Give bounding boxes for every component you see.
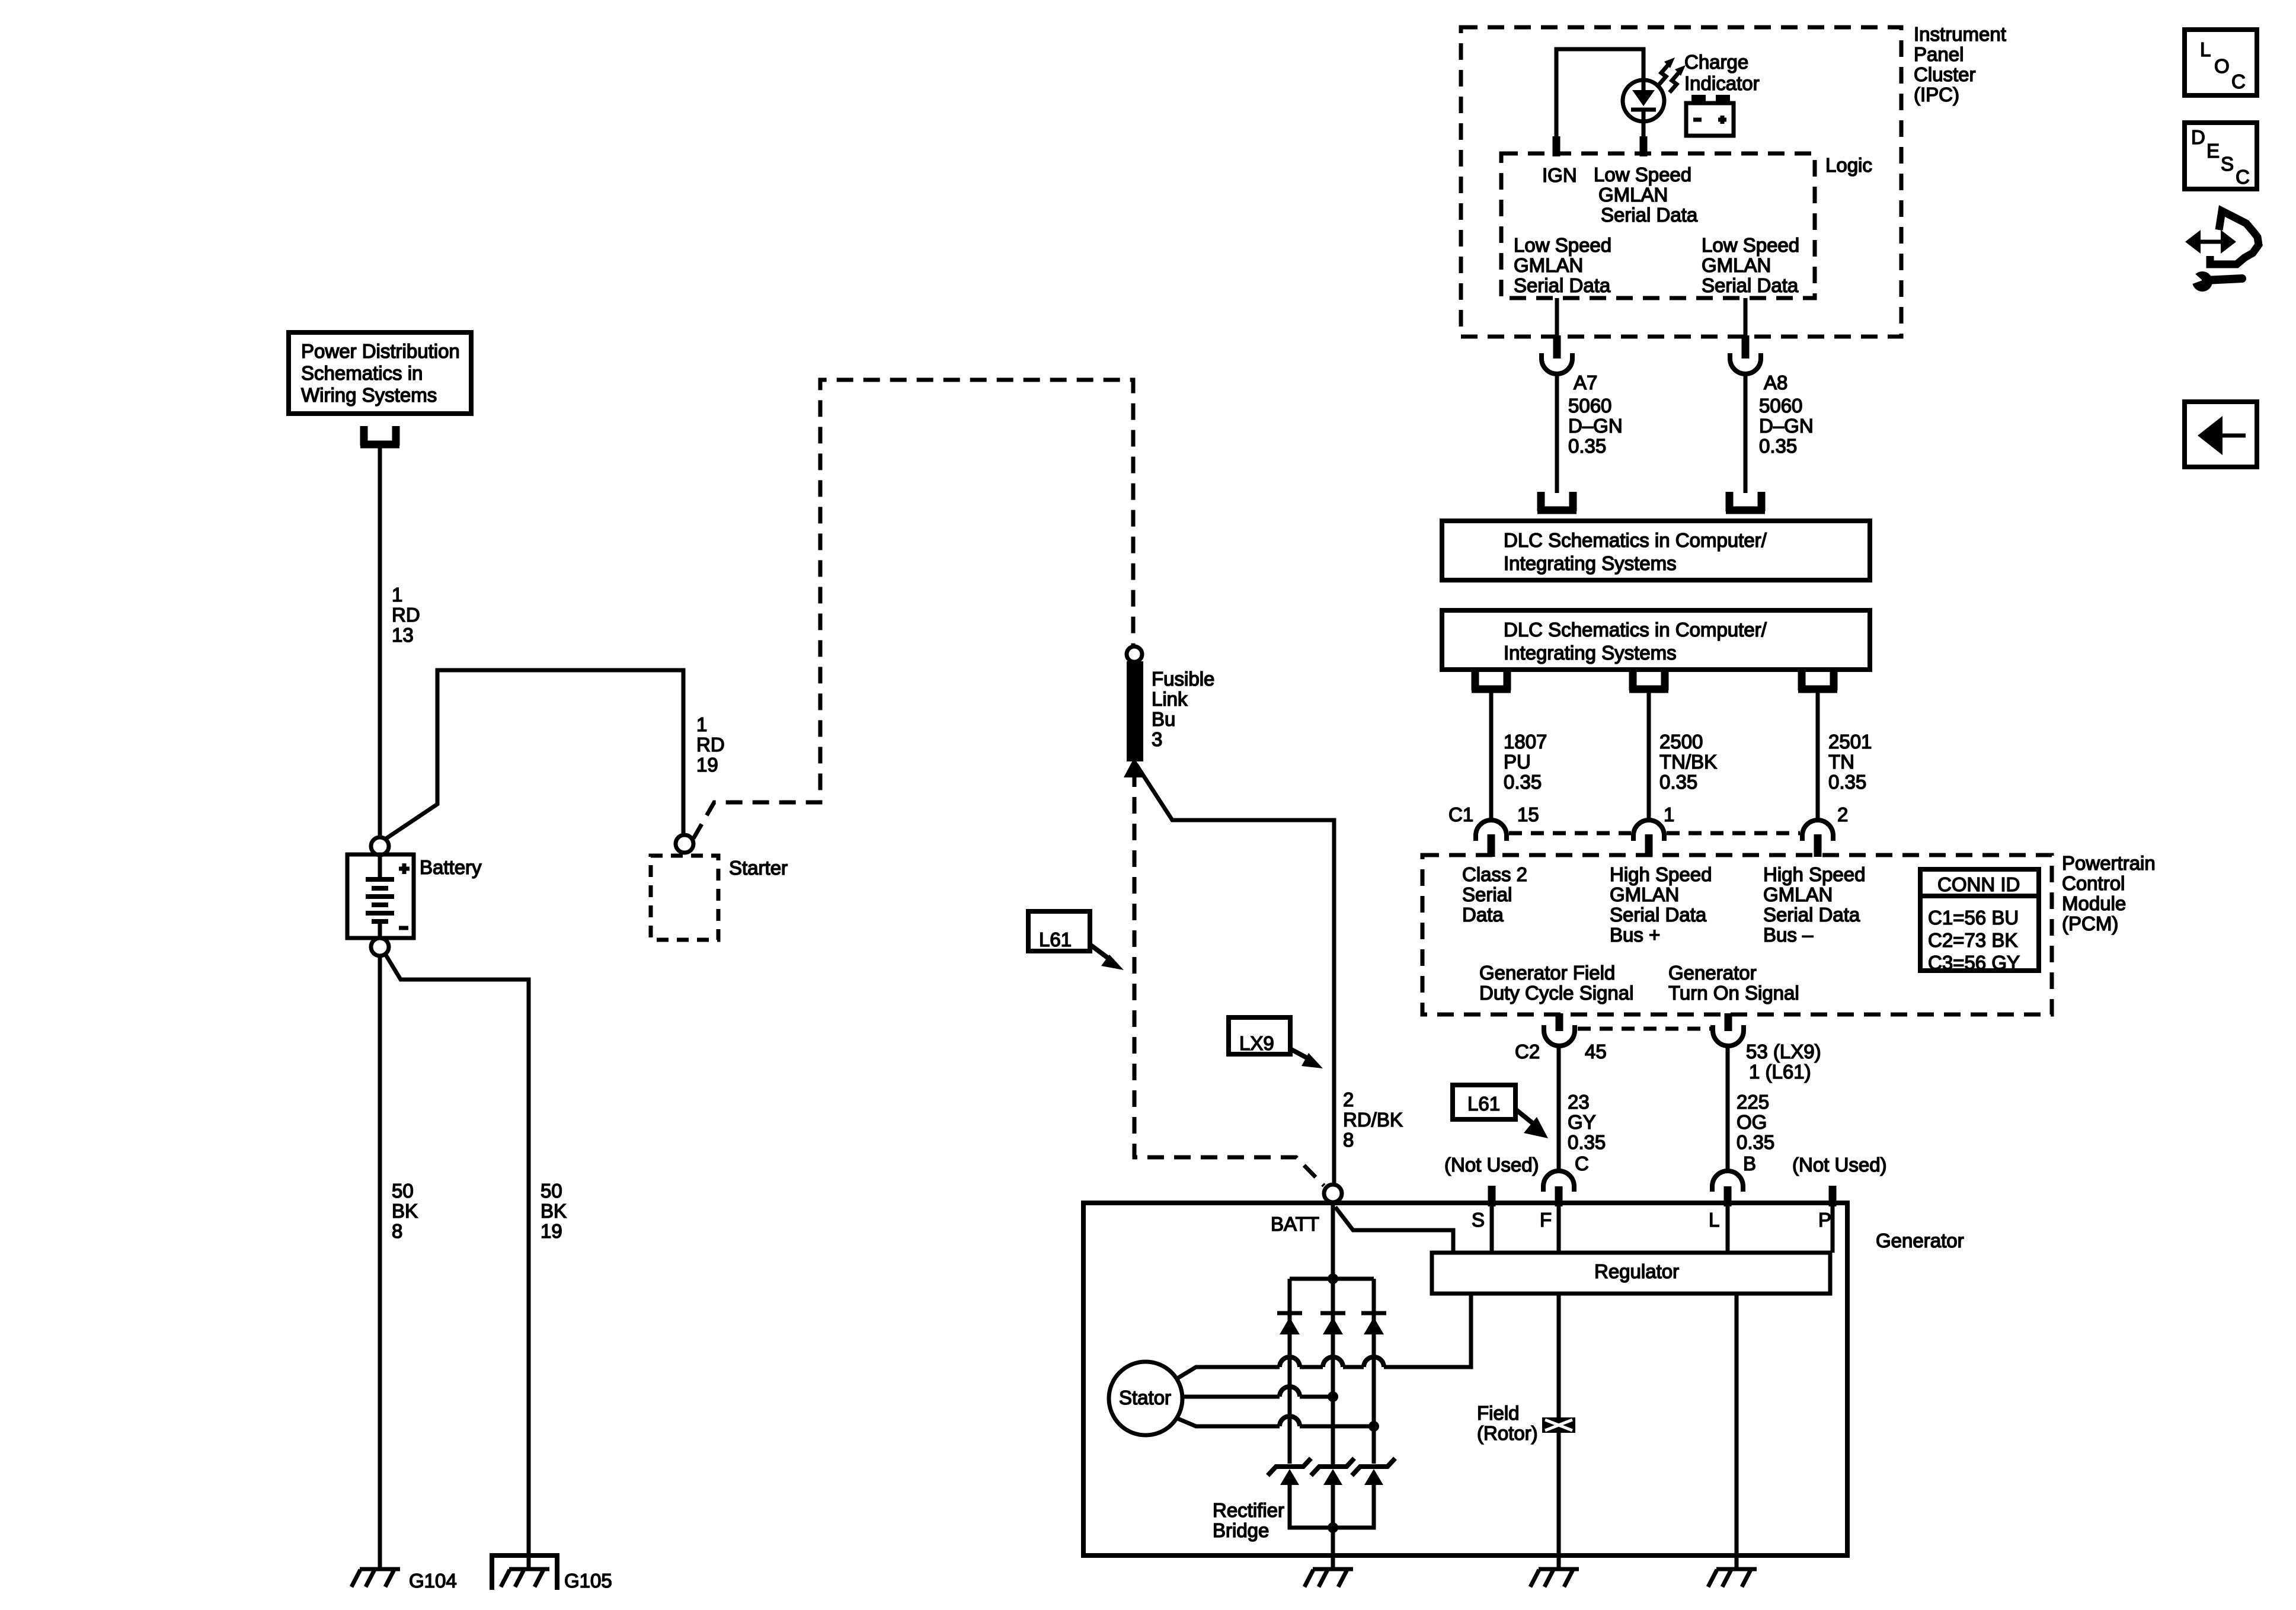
connector arc at generator terminal B <box>1712 1171 1743 1192</box>
svg-text:Starter: Starter <box>729 857 788 879</box>
bump: top phase over right leg <box>1364 1357 1384 1367</box>
label: Low Speed GMLAN Serial Data (top) <box>1594 164 1698 226</box>
svg-text:(Not Used): (Not Used) <box>1444 1154 1539 1176</box>
label: Powertrain Control Module (PCM) <box>2062 852 2156 934</box>
node: bottom phase junction <box>1368 1421 1379 1432</box>
svg-text:L61: L61 <box>1467 1093 1500 1115</box>
wire: regulator to ground <box>1735 1294 1739 1569</box>
svg-text:Link: Link <box>1152 688 1188 710</box>
svg-text:Bu: Bu <box>1152 708 1175 730</box>
pin 1 of PCM <box>1645 834 1653 857</box>
ground G104 <box>351 1569 400 1587</box>
pin 2 of PCM <box>1814 834 1822 857</box>
wire: stator middle phase <box>1182 1395 1333 1399</box>
svg-text:Serial: Serial <box>1462 884 1512 905</box>
arrow from L61 box <box>1090 945 1124 970</box>
connector bracket under lower DLC box (middle) <box>1629 671 1668 690</box>
icon: DESC box <box>2185 123 2257 189</box>
wire: stator top phase to regulator sense <box>1176 1294 1471 1379</box>
svg-text:PU: PU <box>1504 751 1531 773</box>
wire: battery positive to starter feed riser <box>385 670 683 839</box>
svg-text:Indicator: Indicator <box>1684 72 1760 94</box>
label: wire 2 RD/BK 8 <box>1343 1089 1403 1151</box>
svg-text:D–GN: D–GN <box>1568 415 1623 437</box>
wire: stator bottom phase <box>1176 1418 1374 1426</box>
logic dashed box inside IPC <box>1501 153 1815 298</box>
pin: generator terminal P (not used) <box>1829 1186 1837 1206</box>
bump: middle phase over left leg <box>1280 1387 1300 1397</box>
wire: bridge center leg <box>1331 1279 1335 1465</box>
svg-text:DLC Schematics in Computer/: DLC Schematics in Computer/ <box>1504 619 1767 641</box>
svg-text:Panel: Panel <box>1914 43 1964 65</box>
svg-text:Schematics in: Schematics in <box>301 362 423 384</box>
starter (dashed box) <box>651 856 718 940</box>
wire: regulator F output through field <box>1557 1294 1561 1569</box>
wire: terminal S to regulator <box>1490 1205 1494 1253</box>
svg-text:GMLAN: GMLAN <box>1514 254 1583 276</box>
svg-text:Serial Data: Serial Data <box>1610 904 1707 926</box>
connector arc at PCM pin 2 <box>1802 820 1833 841</box>
svg-text:IGN: IGN <box>1542 164 1577 186</box>
svg-text:C1=56 BU: C1=56 BU <box>1928 907 2019 929</box>
svg-text:2501: 2501 <box>1828 731 1872 753</box>
svg-text:O: O <box>2214 55 2230 77</box>
svg-text:Generator: Generator <box>1876 1230 1964 1251</box>
svg-text:TN: TN <box>1828 751 1854 773</box>
svg-text:Logic: Logic <box>1825 154 1872 176</box>
node: bridge top junction <box>1328 1273 1338 1284</box>
wire: bridge to ground <box>1331 1528 1335 1569</box>
svg-text:Control: Control <box>2062 872 2125 894</box>
bump: bottom phase over left leg <box>1280 1416 1300 1426</box>
stator circle <box>1109 1362 1182 1435</box>
label: Rectifier Bridge <box>1213 1499 1284 1541</box>
dashed connector line between PCM bottom pins <box>1578 1027 1710 1031</box>
wire: bridge right leg <box>1372 1279 1376 1464</box>
wire: battery negative to G105 <box>385 954 529 1569</box>
svg-text:Bridge: Bridge <box>1213 1519 1269 1541</box>
wire: 2 RD/BK 8 from fusible link to BATT junction <box>1136 764 1334 1185</box>
svg-text:225: 225 <box>1737 1091 1769 1113</box>
label: wire 225 OG 0.35 <box>1737 1091 1774 1153</box>
pin: generator terminal S (not used) <box>1488 1186 1496 1206</box>
svg-text:GMLAN: GMLAN <box>1702 254 1771 276</box>
dashed connector line between PCM top pins <box>1509 831 1800 836</box>
wire: terminal P to regulator <box>1831 1205 1835 1253</box>
label: wire 1 RD 19 <box>696 713 725 776</box>
svg-text:8: 8 <box>1343 1129 1354 1151</box>
svg-text:1: 1 <box>1664 804 1674 825</box>
svg-text:C: C <box>1575 1153 1589 1174</box>
svg-text:(PCM): (PCM) <box>2062 913 2118 934</box>
connector bracket on DLC box (right) <box>1726 492 1765 511</box>
wire: dashed L61 branch to BATT junction <box>1134 770 1324 1186</box>
svg-text:C: C <box>2231 71 2246 92</box>
svg-text:(Rotor): (Rotor) <box>1477 1422 1538 1444</box>
svg-text:High Speed: High Speed <box>1763 863 1865 885</box>
label: High Speed GMLAN Serial Data Bus + <box>1610 863 1712 946</box>
label: Low Speed GMLAN Serial Data (right) <box>1702 234 1799 296</box>
svg-text:CONN ID: CONN ID <box>1937 873 2020 895</box>
label: wire 1807 PU 0.35 <box>1504 731 1547 793</box>
svg-text:15: 15 <box>1517 804 1539 825</box>
svg-text:Regulator: Regulator <box>1594 1260 1679 1282</box>
diode: upper right <box>1361 1313 1386 1334</box>
svg-text:Bus –: Bus – <box>1763 924 1814 946</box>
wire: 1807 PU 0.35 <box>1489 690 1494 821</box>
svg-text:G104: G104 <box>409 1570 457 1592</box>
fusible link Bu 3 <box>1127 661 1143 761</box>
Instrument Panel Cluster (IPC) dashed box <box>1461 27 1901 337</box>
svg-text:0.35: 0.35 <box>1759 435 1797 457</box>
wire: 1 RD 13 from Power Distribution to Battery <box>378 444 382 837</box>
CONN ID table <box>1920 869 2039 974</box>
svg-text:Rectifier: Rectifier <box>1213 1499 1284 1521</box>
svg-text:TN/BK: TN/BK <box>1659 751 1717 773</box>
box: DLC Schematics in Computer/Integrating Systems (lower) <box>1442 610 1870 670</box>
connector bracket under Power Distribution box <box>360 426 399 446</box>
svg-text:23: 23 <box>1568 1091 1590 1113</box>
svg-text:0.35: 0.35 <box>1737 1131 1774 1153</box>
svg-text:50: 50 <box>541 1180 562 1202</box>
label: High Speed GMLAN Serial Data Bus - <box>1763 863 1865 946</box>
svg-text:8: 8 <box>392 1220 402 1242</box>
label box LX9 (harness callout) <box>1229 1017 1290 1054</box>
label: wire 50 BK 19 <box>541 1180 567 1242</box>
svg-text:Low Speed: Low Speed <box>1514 234 1611 256</box>
svg-text:RD/BK: RD/BK <box>1343 1109 1403 1131</box>
svg-text:GY: GY <box>1568 1111 1596 1133</box>
svg-text:L: L <box>2200 39 2211 60</box>
connector arc at PCM pin 15 <box>1476 820 1507 841</box>
svg-text:Class 2: Class 2 <box>1462 863 1527 885</box>
svg-text:Turn On Signal: Turn On Signal <box>1668 982 1799 1004</box>
arrow from L61 wire callout <box>1515 1109 1548 1138</box>
wire: A7 to DLC bracket <box>1555 374 1559 493</box>
wire: battery negative to G104 <box>378 956 382 1569</box>
label: wire 5060 D-GN 0.35 (left) <box>1568 395 1623 457</box>
svg-text:D: D <box>2191 126 2205 148</box>
field (rotor) winding <box>1542 1417 1575 1433</box>
diode: upper center <box>1320 1313 1345 1334</box>
connector C1 of IPC pin A7 <box>1542 353 1572 374</box>
node: starter terminal <box>676 835 693 853</box>
svg-text:Fusible: Fusible <box>1152 668 1214 690</box>
label: Low Speed GMLAN Serial Data (left) <box>1514 234 1611 296</box>
svg-text:L: L <box>1709 1209 1719 1231</box>
svg-text:GMLAN: GMLAN <box>1610 884 1679 905</box>
svg-text:Charge: Charge <box>1684 51 1748 73</box>
svg-text:C1: C1 <box>1448 804 1473 825</box>
svg-text:E: E <box>2207 140 2220 162</box>
svg-text:Low Speed: Low Speed <box>1702 234 1799 256</box>
pin 53 of PCM <box>1725 1013 1732 1031</box>
svg-text:Serial Data: Serial Data <box>1702 274 1799 296</box>
icon: back arrow box <box>2185 402 2257 467</box>
node: fusible link top terminal <box>1127 646 1142 662</box>
splice arrow at fusible link bottom <box>1124 757 1145 777</box>
arrow from LX9 box <box>1290 1049 1323 1068</box>
battery B1 <box>347 854 414 938</box>
label: Charge Indicator <box>1684 51 1760 94</box>
svg-text:0.35: 0.35 <box>1568 1131 1606 1153</box>
svg-text:1: 1 <box>392 584 402 606</box>
svg-text:1: 1 <box>696 713 707 735</box>
pin: IGN into logic box <box>1553 136 1560 156</box>
rectifier bridge top bus <box>1290 1277 1374 1281</box>
svg-text:High Speed: High Speed <box>1610 863 1712 885</box>
svg-text:2: 2 <box>1343 1089 1354 1110</box>
ground under field <box>1530 1569 1579 1587</box>
Powertrain Control Module (PCM) dashed box <box>1422 855 2052 1014</box>
svg-text:45: 45 <box>1585 1041 1607 1062</box>
svg-text:2500: 2500 <box>1659 731 1703 753</box>
LED charge indicator lamp <box>1623 80 1664 153</box>
svg-text:C3=56 GY: C3=56 GY <box>1928 952 2020 974</box>
pin: generator terminal B / L <box>1724 1186 1732 1206</box>
rectifier bridge bottom bus <box>1290 1484 1374 1528</box>
svg-text:GMLAN: GMLAN <box>1763 884 1833 905</box>
node: battery negative terminal <box>371 938 389 956</box>
svg-text:19: 19 <box>541 1220 562 1242</box>
label: wire 23 GY 0.35 <box>1568 1091 1606 1153</box>
battery symbol icon in IPC <box>1686 95 1734 136</box>
diode: lower right (avalanche) <box>1352 1458 1395 1485</box>
wire: terminal F to regulator <box>1557 1205 1561 1253</box>
label: Generator Turn On Signal <box>1668 962 1799 1004</box>
svg-text:Bus +: Bus + <box>1610 924 1660 946</box>
svg-text:5060: 5060 <box>1568 395 1611 417</box>
svg-text:C: C <box>2236 166 2250 188</box>
connector arc at PCM pin 53 <box>1713 1025 1744 1046</box>
svg-text:5060: 5060 <box>1759 395 1802 417</box>
svg-text:Generator: Generator <box>1668 962 1757 984</box>
pin: charge indicator into logic box <box>1640 136 1648 156</box>
node: BATT junction on generator <box>1324 1185 1342 1202</box>
svg-text:LX9: LX9 <box>1239 1032 1274 1054</box>
ground under rectifier bridge <box>1304 1569 1353 1587</box>
diode: upper left <box>1277 1313 1302 1334</box>
regulator box <box>1432 1253 1830 1294</box>
box: DLC Schematics in Computer/Integrating Systems (upper) <box>1442 521 1870 580</box>
svg-text:Stator: Stator <box>1119 1387 1171 1409</box>
svg-text:B: B <box>1743 1153 1756 1174</box>
svg-text:3: 3 <box>1152 728 1162 750</box>
svg-text:Low Speed: Low Speed <box>1594 164 1691 185</box>
label: Field (Rotor) <box>1477 1402 1538 1444</box>
svg-text:50: 50 <box>392 1180 414 1202</box>
svg-text:BATT: BATT <box>1271 1213 1319 1235</box>
wire: BATT junction down to rectifier bridge <box>1331 1202 1335 1279</box>
connector arc at generator terminal C <box>1543 1171 1574 1192</box>
svg-text:Integrating Systems: Integrating Systems <box>1504 642 1677 664</box>
svg-text:Wiring Systems: Wiring Systems <box>301 384 437 406</box>
svg-text:BK: BK <box>541 1200 567 1222</box>
svg-text:0.35: 0.35 <box>1659 771 1697 793</box>
pin: generator terminal C / F <box>1555 1186 1563 1206</box>
svg-text:L61: L61 <box>1039 929 1072 950</box>
svg-text:0.35: 0.35 <box>1828 771 1866 793</box>
icon: vehicle navigation arrows <box>2185 211 2259 292</box>
svg-text:RD: RD <box>696 734 725 756</box>
svg-text:Serial Data: Serial Data <box>1763 904 1860 926</box>
label: wire 50 BK 8 <box>392 1180 418 1242</box>
ground G105 <box>492 1555 557 1590</box>
svg-text:Instrument: Instrument <box>1914 23 2006 45</box>
wire: logic to IPC pin A7 <box>1555 298 1559 335</box>
wire: 225 OG 0.35 PCM to generator L <box>1726 1046 1730 1172</box>
connector bracket under lower DLC box (left) <box>1472 671 1511 690</box>
svg-text:(Not Used): (Not Used) <box>1792 1154 1887 1176</box>
svg-text:G105: G105 <box>564 1570 612 1592</box>
wire: logic to IPC pin A8 <box>1744 298 1748 335</box>
svg-text:19: 19 <box>696 754 718 776</box>
svg-text:OG: OG <box>1737 1111 1767 1133</box>
svg-text:0.35: 0.35 <box>1504 771 1542 793</box>
pin 45 of PCM connector C2 <box>1556 1013 1563 1031</box>
wire: 23 GY 0.35 PCM to generator F <box>1557 1046 1561 1172</box>
svg-text:C2: C2 <box>1515 1041 1540 1062</box>
svg-text:F: F <box>1540 1209 1552 1231</box>
svg-text:RD: RD <box>392 604 420 626</box>
ground under regulator <box>1708 1569 1757 1587</box>
lightning arrows on charge indicator <box>1659 57 1686 92</box>
connector C1 of IPC pin A8 <box>1730 353 1761 374</box>
node: middle phase junction <box>1328 1391 1338 1402</box>
svg-text:Field: Field <box>1477 1402 1520 1424</box>
svg-text:Power Distribution: Power Distribution <box>301 340 460 362</box>
pin A7 of IPC <box>1553 335 1561 359</box>
svg-text:(IPC): (IPC) <box>1914 84 1959 105</box>
label: wire 1 RD 13 <box>392 584 420 646</box>
label: wire 2500 TN/BK 0.35 <box>1659 731 1717 793</box>
svg-text:Cluster: Cluster <box>1914 63 1976 85</box>
label: wire 2501 TN 0.35 <box>1828 731 1872 793</box>
svg-text:2: 2 <box>1837 804 1848 825</box>
svg-text:Serial Data: Serial Data <box>1514 274 1611 296</box>
connector arc at PCM pin 45 <box>1544 1025 1575 1046</box>
label box L61 (harness callout) <box>1028 911 1090 951</box>
wire: terminal L to regulator <box>1726 1205 1730 1253</box>
wire: 2500 TN/BK 0.35 <box>1647 690 1651 821</box>
svg-text:S: S <box>2221 153 2234 175</box>
svg-text:Module: Module <box>2062 892 2126 914</box>
bump: top phase over center leg <box>1323 1357 1343 1367</box>
connector arc at PCM pin 1 <box>1633 820 1664 841</box>
node: battery positive terminal <box>371 837 389 855</box>
diode: lower left (avalanche) <box>1268 1458 1311 1485</box>
wire: bridge left leg <box>1288 1279 1292 1464</box>
label: Fusible Link Bu 3 <box>1152 668 1214 750</box>
node: bridge bottom junction <box>1328 1522 1338 1533</box>
svg-text:1 (L61): 1 (L61) <box>1749 1061 1811 1083</box>
wire: 2501 TN 0.35 <box>1816 690 1820 821</box>
svg-text:Battery: Battery <box>420 856 482 878</box>
svg-text:Powertrain: Powertrain <box>2062 852 2156 874</box>
pin A8 of IPC <box>1742 335 1750 359</box>
connector bracket on DLC box (left) <box>1537 492 1576 511</box>
svg-text:Duty Cycle Signal: Duty Cycle Signal <box>1479 982 1633 1004</box>
svg-text:P: P <box>1818 1209 1831 1231</box>
svg-text:0.35: 0.35 <box>1568 435 1606 457</box>
svg-text:Serial Data: Serial Data <box>1601 204 1698 226</box>
svg-text:GMLAN: GMLAN <box>1598 184 1668 206</box>
wire: BATT junction to regulator <box>1335 1207 1453 1253</box>
svg-text:Generator Field: Generator Field <box>1479 962 1615 984</box>
svg-text:A7: A7 <box>1574 372 1597 393</box>
wire: IGN feed inside IPC <box>1556 49 1643 153</box>
diode: lower center (avalanche) <box>1311 1458 1354 1485</box>
generator box <box>1083 1203 1847 1555</box>
svg-text:13: 13 <box>392 624 414 646</box>
label: Instrument Panel Cluster (IPC) <box>1914 23 2006 105</box>
svg-text:DLC Schematics in Computer/: DLC Schematics in Computer/ <box>1504 529 1767 551</box>
svg-text:C2=73 BK: C2=73 BK <box>1928 929 2017 951</box>
label: Class 2 Serial Data <box>1462 863 1527 926</box>
pin 15 of PCM <box>1488 834 1495 857</box>
box: Power Distribution Schematics in Wiring Systems <box>289 332 471 414</box>
label: wire 5060 D-GN 0.35 (right) <box>1759 395 1814 457</box>
connector bracket under lower DLC box (right) <box>1798 671 1837 690</box>
svg-text:1807: 1807 <box>1504 731 1547 753</box>
svg-text:53 (LX9): 53 (LX9) <box>1746 1041 1821 1062</box>
svg-text:S: S <box>1472 1209 1485 1231</box>
bump: top phase over left leg <box>1280 1357 1300 1367</box>
label: Generator Field Duty Cycle Signal <box>1479 962 1633 1004</box>
svg-text:D–GN: D–GN <box>1759 415 1814 437</box>
icon: LOC box <box>2185 30 2257 95</box>
wire: A8 to DLC bracket <box>1744 374 1748 493</box>
wire: dashed harness route from starter to fusible link <box>693 380 1133 838</box>
label box L61 (wire callout) <box>1453 1085 1515 1119</box>
svg-text:A8: A8 <box>1764 372 1787 393</box>
svg-text:Integrating Systems: Integrating Systems <box>1504 552 1677 574</box>
svg-text:BK: BK <box>392 1200 418 1222</box>
svg-text:Data: Data <box>1462 904 1504 926</box>
